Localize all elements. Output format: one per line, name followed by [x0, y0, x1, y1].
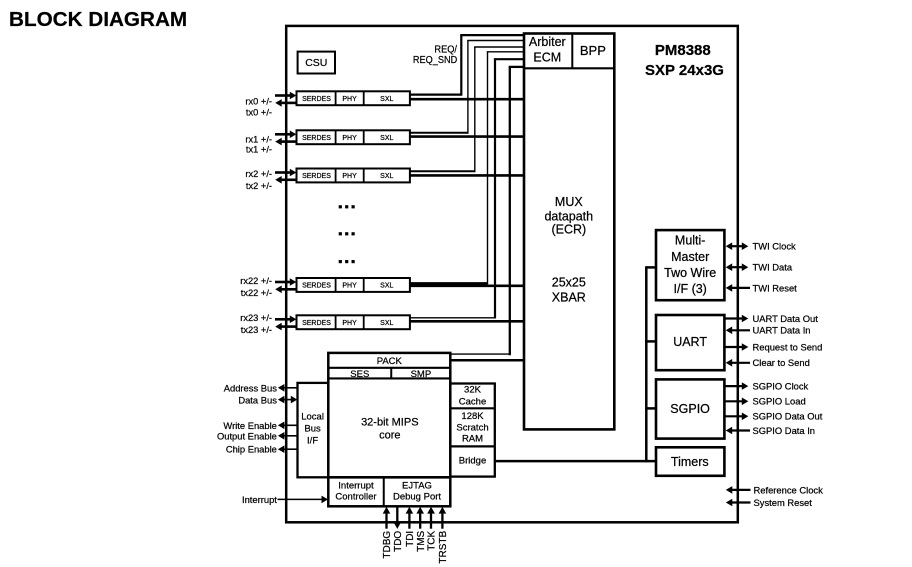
pin tx2 output arrow: [275, 176, 296, 184]
ellipsis dots group 2: [339, 232, 355, 235]
svg-text:TRSTB: TRSTB: [438, 530, 449, 563]
pin rx23 input arrow: [275, 316, 296, 324]
svg-text:TWI Clock: TWI Clock: [753, 241, 797, 252]
svg-text:System Reset: System Reset: [754, 497, 813, 508]
wire stub to multi-master: [645, 266, 656, 269]
divider above interrupt/EJTAG row: [328, 476, 450, 479]
chip outline PM8388: [286, 26, 738, 522]
svg-text:tx2 +/-: tx2 +/-: [246, 181, 272, 191]
svg-text:Debug Port: Debug Port: [393, 492, 441, 503]
svg-text:SERDES: SERDES: [302, 173, 331, 180]
divider between SES and SMP: [390, 368, 392, 379]
wire rx2 REQ to arbiter: [410, 47, 524, 172]
svg-text:Write Enable: Write Enable: [223, 420, 277, 431]
pin Data Bus bidirectional arrow: [278, 396, 297, 404]
wire rx22 REQ to arbiter: [410, 52, 524, 284]
svg-text:PM8388: PM8388: [655, 42, 711, 59]
block label Arbiter ECM: [529, 35, 566, 65]
svg-text:datapath: datapath: [544, 210, 593, 224]
svg-text:REQ/: REQ/: [434, 44, 457, 55]
svg-text:core: core: [379, 429, 400, 441]
svg-text:CSU: CSU: [305, 57, 327, 69]
svg-text:SGPIO Clock: SGPIO Clock: [753, 381, 809, 392]
pin TWI Clock bidirectional arrow: [726, 242, 749, 250]
svg-text:Master: Master: [671, 250, 709, 264]
block label 25x25 XBAR: [552, 275, 586, 304]
svg-text:UART Data In: UART Data In: [753, 325, 811, 336]
svg-text:(ECR): (ECR): [551, 223, 586, 237]
svg-text:Arbiter: Arbiter: [529, 35, 566, 49]
wire rx0 REQ to arbiter: [410, 35, 524, 96]
wire stub to UART: [645, 340, 656, 343]
block SERDES/PHY/SXL row 2: [297, 169, 410, 183]
pin TDBG arrow up: [383, 507, 391, 529]
svg-text:SXL: SXL: [380, 320, 393, 327]
svg-text:Output Enable: Output Enable: [217, 430, 277, 441]
pin tx1 output arrow: [275, 138, 296, 146]
svg-text:Chip Enable: Chip Enable: [226, 444, 277, 455]
svg-text:tx1 +/-: tx1 +/-: [246, 145, 272, 155]
pin rx0 input arrow: [275, 92, 296, 100]
wire rx1 REQ to arbiter: [410, 41, 524, 134]
svg-text:Interrupt: Interrupt: [242, 494, 277, 505]
pin TDO arrow down: [394, 507, 402, 529]
svg-text:SXL: SXL: [380, 283, 393, 290]
block Timers: [656, 447, 724, 476]
wire rx2 data to MUX: [410, 174, 524, 177]
pin Reference Clock input arrow: [726, 486, 751, 494]
svg-text:SGPIO Data Out: SGPIO Data Out: [753, 411, 823, 422]
wire rx1 data to MUX: [410, 135, 524, 138]
svg-text:SGPIO Data In: SGPIO Data In: [753, 425, 816, 436]
svg-text:Bus: Bus: [304, 424, 321, 435]
svg-text:BLOCK DIAGRAM: BLOCK DIAGRAM: [9, 8, 187, 31]
pin System Reset input arrow: [726, 499, 751, 507]
svg-text:Timers: Timers: [671, 455, 709, 469]
pin UART Data In arrow: [726, 327, 750, 335]
wire peripheral bus vertical: [645, 267, 648, 462]
svg-text:tx0 +/-: tx0 +/-: [246, 108, 272, 118]
svg-text:TWI Reset: TWI Reset: [753, 282, 798, 293]
wire bridge to timers: [495, 460, 656, 463]
svg-text:32-bit MIPS: 32-bit MIPS: [361, 417, 418, 429]
pin Interrupt arrow: [278, 496, 329, 504]
block SERDES/PHY/SXL row 22: [297, 278, 410, 292]
svg-text:rx1 +/-: rx1 +/-: [245, 134, 272, 144]
divider between interrupt controller and EJTAG: [383, 477, 385, 506]
svg-text:TDBG: TDBG: [382, 531, 393, 559]
svg-text:32K: 32K: [464, 385, 482, 396]
pin tx23 output arrow: [275, 323, 296, 331]
pin SGPIO Data In arrow: [726, 427, 750, 435]
svg-text:PHY: PHY: [342, 283, 357, 290]
pin TRSTB arrow up: [439, 507, 447, 529]
svg-text:Multi-: Multi-: [675, 233, 706, 247]
svg-text:rx23 +/-: rx23 +/-: [240, 313, 272, 323]
svg-text:SMP: SMP: [411, 369, 432, 380]
block label MUX datapath (ECR): [544, 195, 593, 237]
svg-text:TDI: TDI: [405, 531, 416, 547]
block PACK/MIPS outline: [328, 353, 450, 506]
pin TWI Data bidirectional arrow: [726, 263, 749, 271]
divider between arbiter and BPP: [571, 34, 573, 69]
pin SGPIO Clock arrow: [724, 382, 748, 390]
block UART: [656, 315, 724, 370]
wire PACK REQ to arbiter riser: [450, 67, 524, 355]
ellipsis dots group 3: [339, 260, 355, 263]
svg-text:SXP 24x3G: SXP 24x3G: [645, 62, 724, 79]
pin rx1 input arrow: [275, 131, 296, 139]
wire rx0 data to MUX: [410, 98, 524, 101]
pin SGPIO Load arrow: [724, 398, 748, 406]
svg-text:tx23 +/-: tx23 +/-: [241, 325, 272, 335]
block SGPIO: [656, 379, 724, 438]
svg-text:25x25: 25x25: [552, 275, 586, 289]
svg-text:SGPIO Load: SGPIO Load: [753, 396, 806, 407]
svg-text:Address Bus: Address Bus: [224, 383, 277, 394]
svg-text:SERDES: SERDES: [302, 283, 331, 290]
svg-text:tx22 +/-: tx22 +/-: [241, 288, 272, 298]
ellipsis dots group 1: [339, 205, 355, 208]
svg-text:Clear to Send: Clear to Send: [753, 357, 810, 368]
svg-text:I/F (3): I/F (3): [674, 282, 707, 296]
pin tx22 output arrow: [275, 286, 296, 294]
svg-text:Controller: Controller: [335, 492, 376, 503]
block label EJTAG Debug Port: [393, 481, 441, 503]
block label 128K Scratch RAM: [456, 411, 488, 445]
svg-text:Cache: Cache: [459, 397, 486, 408]
pin Clear to Send arrow: [726, 359, 750, 367]
svg-text:BPP: BPP: [580, 43, 606, 58]
svg-text:Reference Clock: Reference Clock: [754, 484, 824, 495]
svg-text:SERDES: SERDES: [302, 96, 331, 103]
svg-text:Two Wire: Two Wire: [664, 266, 716, 280]
svg-text:PHY: PHY: [342, 173, 357, 180]
svg-text:ECM: ECM: [533, 51, 561, 65]
svg-text:TWI Data: TWI Data: [753, 262, 793, 273]
block label 32K Cache: [459, 385, 486, 408]
pin TMS arrow up: [416, 507, 424, 529]
block CSU: [298, 52, 335, 74]
pin SGPIO Data Out arrow: [724, 413, 748, 421]
svg-text:SXL: SXL: [380, 135, 393, 142]
wire PACK data to MUX: [450, 359, 524, 362]
block Multi-Master Two Wire I/F (3): [656, 230, 724, 300]
block 32K Cache / 128K Scratch RAM / Bridge column: [450, 384, 495, 477]
divider below SES/SMP row: [328, 377, 450, 379]
svg-text:PHY: PHY: [342, 320, 357, 327]
pin Address Bus arrow: [278, 384, 298, 392]
svg-text:RAM: RAM: [462, 434, 483, 445]
svg-text:Interrupt: Interrupt: [338, 481, 374, 492]
svg-text:REQ_SND: REQ_SND: [413, 55, 457, 66]
svg-text:SES: SES: [350, 369, 369, 380]
svg-text:TMS: TMS: [416, 530, 427, 551]
pin TCK arrow up: [427, 507, 435, 529]
pin Chip Enable arrow: [278, 445, 298, 453]
pin rx2 input arrow: [275, 169, 296, 177]
divider below arbiter and BPP: [524, 67, 614, 69]
wire rx23 data to MUX: [410, 320, 524, 323]
block SERDES/PHY/SXL row 0: [297, 91, 410, 105]
block SERDES/PHY/SXL row 23: [297, 315, 410, 329]
svg-text:Local: Local: [301, 412, 324, 423]
svg-text:EJTAG: EJTAG: [402, 481, 432, 492]
block label Interrupt Controller: [335, 481, 376, 503]
svg-text:XBAR: XBAR: [552, 291, 586, 305]
svg-text:SXL: SXL: [380, 173, 393, 180]
svg-text:PHY: PHY: [342, 96, 357, 103]
svg-text:rx22 +/-: rx22 +/-: [240, 276, 272, 286]
svg-text:rx2 +/-: rx2 +/-: [245, 169, 272, 179]
pin TWI Reset input arrow: [726, 284, 750, 292]
svg-text:rx0 +/-: rx0 +/-: [245, 96, 272, 106]
net label REQ/REQ_SND: [413, 44, 457, 66]
divider below PACK row: [328, 367, 450, 369]
divider below scratch RAM: [450, 445, 495, 447]
wire rx22 data to MUX: [410, 284, 524, 287]
divider below 32K cache: [450, 407, 495, 409]
svg-text:SERDES: SERDES: [302, 135, 331, 142]
svg-text:PACK: PACK: [377, 356, 403, 367]
block label 32-bit MIPS core: [361, 417, 418, 442]
svg-text:SXL: SXL: [380, 96, 393, 103]
svg-text:Bridge: Bridge: [459, 456, 486, 467]
pin TDI arrow up: [406, 507, 414, 529]
block Local Bus I/F: [298, 383, 329, 477]
svg-text:PHY: PHY: [342, 135, 357, 142]
svg-text:I/F: I/F: [307, 436, 318, 447]
svg-text:Data Bus: Data Bus: [238, 394, 277, 405]
svg-text:Scratch: Scratch: [456, 422, 488, 433]
chip name label PM8388 SXP 24x3G: [645, 42, 724, 79]
pin UART Data Out arrow: [724, 315, 748, 323]
svg-text:Request to Send: Request to Send: [753, 341, 823, 352]
pin Write Enable arrow: [278, 422, 298, 430]
block SERDES/PHY/SXL row 1: [297, 130, 410, 144]
block arbiter/BPP/MUX outline: [524, 34, 614, 430]
wire rx23 REQ to arbiter: [410, 59, 524, 318]
svg-text:TCK: TCK: [427, 530, 438, 550]
pin Output Enable arrow: [278, 432, 298, 440]
svg-text:128K: 128K: [461, 411, 484, 422]
wire stub to SGPIO: [645, 407, 656, 410]
svg-text:MUX: MUX: [555, 195, 583, 209]
svg-text:SGPIO: SGPIO: [670, 402, 710, 416]
pin tx0 output arrow: [275, 99, 296, 107]
svg-text:SERDES: SERDES: [302, 320, 331, 327]
svg-text:UART Data Out: UART Data Out: [753, 313, 819, 324]
svg-text:UART: UART: [673, 335, 707, 349]
pin rx22 input arrow: [275, 278, 296, 286]
svg-text:TDO: TDO: [393, 531, 404, 552]
pin Request to Send arrow: [724, 343, 748, 351]
